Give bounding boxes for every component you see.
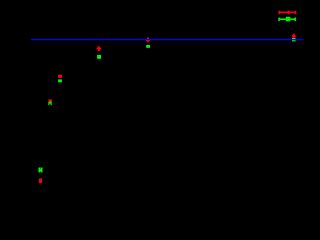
data point F green error-bar H (40.5,170): [39, 168, 43, 173]
legend red error-bar entry: [279, 11, 297, 14]
data point D red rect (60.1,76.3): [58, 75, 62, 78]
data point C green square: [292, 38, 296, 41]
data point F red rect (40.5,180.8): [39, 179, 42, 184]
data point B red cross (148,39.5): [146, 38, 150, 43]
data point C red cross (294,36.2): [292, 34, 296, 39]
data point D green square: [58, 79, 62, 82]
blue horizontal line: [31, 39, 304, 41]
data point E green square with caps: [48, 101, 51, 105]
data point B green square: [146, 45, 150, 48]
legend green error-bar entry with square: [278, 17, 296, 22]
data point E red cap sliver: [48, 101, 49, 102]
data point A red cross (99,48.8): [97, 46, 101, 51]
data point A green square: [97, 55, 101, 59]
data point E red rect on top: [49, 99, 52, 101]
